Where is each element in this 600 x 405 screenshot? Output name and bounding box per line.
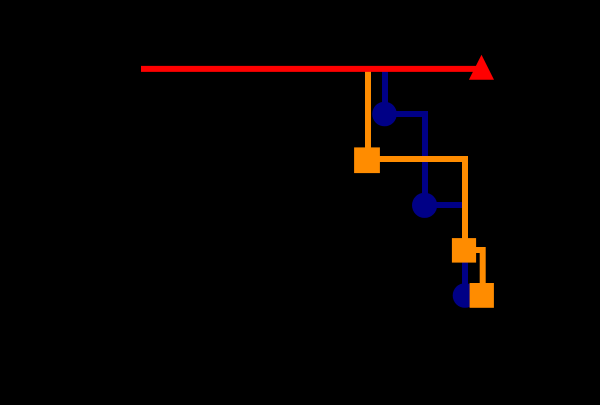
node: navy circle marker 1	[372, 102, 397, 127]
node: navy circle marker 3	[453, 283, 478, 308]
node: navy circle marker 2	[412, 193, 437, 218]
node: red triangle marker	[469, 55, 494, 80]
node: orange square marker 1	[354, 147, 380, 173]
wire: orange step line	[368, 69, 483, 296]
wire: navy step line	[385, 69, 465, 296]
node: orange square marker 2	[452, 238, 476, 263]
wire: red horizontal line	[141, 66, 482, 72]
node: orange square marker 3	[470, 283, 494, 308]
